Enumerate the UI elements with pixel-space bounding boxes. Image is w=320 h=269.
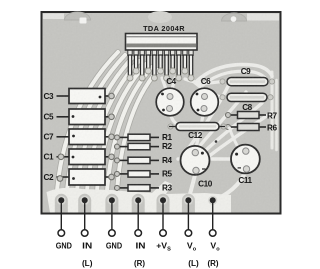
capacitor C3 <box>57 89 115 104</box>
pin 10 <box>183 55 186 69</box>
terminal IN(R) <box>135 230 142 237</box>
capacitor C7 <box>57 129 115 145</box>
resistor R1 <box>114 134 159 140</box>
pin 6 <box>159 55 162 69</box>
svg-text:GND: GND <box>56 241 72 251</box>
IC U1 body <box>126 34 198 51</box>
lead GND2 <box>111 200 113 230</box>
wire left fan shadow <box>56 52 158 207</box>
lead Vo(R) <box>212 200 214 230</box>
terminal circles <box>58 230 216 237</box>
capacitor C12 <box>169 123 225 131</box>
svg-text:IN: IN <box>82 241 92 251</box>
wire left fan 6 <box>106 67 152 207</box>
pad at C9 right <box>269 79 274 84</box>
pin 8 <box>171 55 174 69</box>
svg-text:+VS: +VS <box>156 241 171 253</box>
pad at C8 left <box>220 95 225 100</box>
solder pads bottom row <box>57 196 218 205</box>
resistor R6 <box>226 124 267 131</box>
pad IN(L) <box>80 196 89 205</box>
wire C6 to C10 <box>195 109 204 153</box>
mounting hole right (round) <box>231 16 237 22</box>
capacitor C10 <box>181 146 210 175</box>
light halo above IC text <box>148 11 172 23</box>
pin 4 <box>147 55 150 69</box>
copper pour bottom band <box>47 181 232 213</box>
terminal Vo(R) <box>209 230 216 237</box>
wire pin to C6 <box>198 80 202 92</box>
pad IN(R) <box>134 196 143 205</box>
svg-text:(R): (R) <box>208 258 219 268</box>
mounting tab right <box>222 13 247 21</box>
svg-text:(L): (L) <box>188 258 199 268</box>
pin 3 <box>141 55 144 76</box>
pad at C9 left <box>220 79 225 84</box>
lead IN(R) <box>137 200 139 230</box>
capacitor C5 <box>57 109 115 125</box>
mounting hole left (square) <box>80 18 87 24</box>
pin 5 <box>153 55 156 76</box>
pad clearance wedge IN(R) <box>132 194 145 213</box>
capacitor C6 <box>191 88 219 116</box>
resistor R4 <box>114 157 159 163</box>
resistor R3 <box>114 185 159 191</box>
scan grain overlay <box>42 13 280 213</box>
lead Vo(L) <box>187 200 189 230</box>
resistor R5 <box>114 171 159 177</box>
capacitor C8 <box>227 93 267 101</box>
pad clearance wedge GND2 <box>105 194 118 213</box>
pad +Vs <box>158 196 167 205</box>
terminal labels <box>56 241 220 268</box>
wire right edge vertical 2 <box>275 80 278 150</box>
capacitor C2 <box>57 169 115 185</box>
wire left fan 4 <box>86 61 139 207</box>
terminal GND2 <box>109 230 116 237</box>
pin 9 <box>177 55 180 76</box>
terminal GND1 <box>58 230 65 237</box>
terminal Vo(L) <box>185 230 192 237</box>
pin 7 <box>165 55 168 76</box>
capacitor C4 <box>156 88 184 116</box>
pad clearance wedge Vo(L) <box>182 194 195 213</box>
terminal IN(L) <box>81 230 88 237</box>
IC U1 pins <box>128 50 193 76</box>
pad clearance wedge IN(L) <box>78 194 91 213</box>
wire left fan 5 <box>96 64 146 207</box>
wire C11 to Vo(R) pad <box>213 169 247 200</box>
resistor R2 <box>114 143 159 149</box>
svg-text:IN: IN <box>136 241 146 251</box>
wire C10 to Vo(L) pad <box>188 171 196 201</box>
pad Vo(L) <box>184 196 193 205</box>
mounting tab left <box>65 12 91 20</box>
wire pins to right edge upper <box>196 65 272 82</box>
wire left fan 7 <box>116 70 158 207</box>
capacitor C11 <box>231 145 260 174</box>
pad C12 right <box>221 124 226 129</box>
svg-text:GND: GND <box>106 241 122 251</box>
svg-text:Vo: Vo <box>187 241 197 253</box>
lead +Vs <box>162 200 164 230</box>
wire pin to C4 <box>162 78 167 92</box>
lead GND1 <box>60 200 62 230</box>
svg-text:(R): (R) <box>134 258 145 268</box>
wire left fan 2 <box>66 55 125 207</box>
pad clearance wedge +Vs <box>157 194 170 213</box>
terminal +Vs <box>160 230 167 237</box>
wire pin11 to C8 left <box>191 79 222 97</box>
wire C11 to R6 <box>230 128 240 149</box>
wire right fan 1 <box>187 82 230 150</box>
wire right fan 4 <box>208 112 272 157</box>
capacitor C1 <box>57 149 115 165</box>
pad Vo(R) <box>208 196 217 205</box>
via near C11 <box>215 140 218 143</box>
wire +Vs pad to R3 <box>160 188 164 200</box>
PCB board outline and copper area <box>42 12 281 214</box>
terminal leads <box>61 200 212 230</box>
wire C4 to C12 <box>170 109 179 126</box>
wire left fan 3 <box>76 58 132 207</box>
wire left fan 1 <box>56 52 118 207</box>
IC U1 pin pads <box>127 68 194 81</box>
capacitor C9 <box>227 78 268 86</box>
wire pin to C4 right <box>171 78 175 93</box>
pad at C8 right <box>268 95 273 100</box>
pad GND2 <box>107 196 116 205</box>
wire across C10 <box>178 157 232 160</box>
svg-text:Vo: Vo <box>210 241 220 253</box>
pad GND1 <box>57 196 66 205</box>
top margin strip left <box>43 14 64 20</box>
pin 11 <box>189 55 192 76</box>
lead IN(L) <box>84 200 86 230</box>
pad clearance wedge GND1 <box>55 194 68 213</box>
wire pins to right edge upper 2 <box>203 71 268 85</box>
wire right edge vertical 1 <box>271 72 274 148</box>
wire pin9 to C9 left <box>185 79 222 83</box>
pin 2 <box>134 55 137 69</box>
wire right fan 2 <box>194 92 246 153</box>
pad C12 left <box>168 124 173 129</box>
svg-text:(L): (L) <box>82 258 93 268</box>
resistor R7 <box>226 112 267 119</box>
pin 1 <box>128 55 131 76</box>
top margin strip right <box>247 14 279 21</box>
wire right fan 3 <box>201 103 262 155</box>
